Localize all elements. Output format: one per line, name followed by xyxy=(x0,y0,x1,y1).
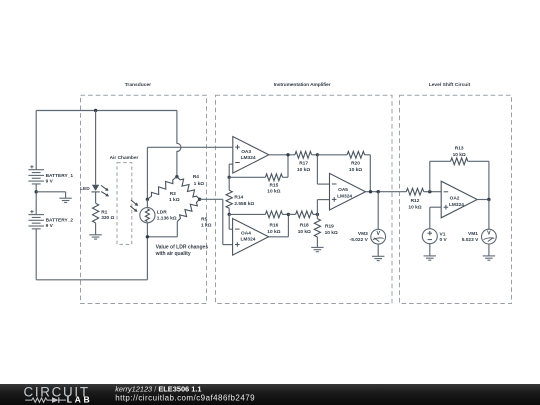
svg-text:10 kΩ: 10 kΩ xyxy=(297,167,310,173)
voltage source V1 xyxy=(422,229,447,244)
resistor R5 xyxy=(177,199,211,228)
svg-text:LDR: LDR xyxy=(157,210,167,216)
svg-text:Value of LDR changes: Value of LDR changes xyxy=(156,245,209,251)
svg-text:10 kΩ: 10 kΩ xyxy=(349,167,362,173)
svg-text:10 kΩ: 10 kΩ xyxy=(325,230,338,236)
CircuitLab logo wordmark CIRCUIT xyxy=(24,385,90,400)
wire top rail xyxy=(36,110,177,112)
ground VM3 xyxy=(372,256,384,260)
resistor R14 xyxy=(226,177,254,214)
svg-text:Level Shift Circuit: Level Shift Circuit xyxy=(429,82,471,88)
svg-text:R4: R4 xyxy=(193,174,199,180)
junction bridge left node xyxy=(146,198,149,201)
svg-text:5.023 V: 5.023 V xyxy=(462,237,479,243)
svg-text:10 kΩ: 10 kΩ xyxy=(408,205,421,211)
CircuitLab logo wordmark LAB xyxy=(67,394,92,404)
svg-text:1 kΩ: 1 kΩ xyxy=(169,197,180,203)
svg-text:10 kΩ: 10 kΩ xyxy=(453,152,466,158)
ground R19 xyxy=(311,247,323,251)
junction VM3 tap xyxy=(377,190,380,193)
svg-text:BATTERY_2: BATTERY_2 xyxy=(46,218,74,224)
wire OA2 output xyxy=(477,199,489,201)
svg-text:OA2: OA2 xyxy=(450,196,460,202)
wire R20 to output xyxy=(369,155,371,192)
junction R12 R13 node xyxy=(428,190,431,193)
svg-text:LED: LED xyxy=(80,186,90,192)
resistor R16 xyxy=(229,211,288,235)
svg-text:1.136 kΩ: 1.136 kΩ xyxy=(157,216,177,222)
svg-text:Instrumentation Amplifier: Instrumentation Amplifier xyxy=(274,82,331,88)
svg-text:LM324: LM324 xyxy=(337,194,352,200)
annotation label Instrumentation Amplifier xyxy=(274,82,331,88)
op-amp OA3 xyxy=(233,137,269,174)
svg-text:LM324: LM324 xyxy=(241,237,256,243)
ground battery midpoint xyxy=(59,198,71,202)
svg-text:R16: R16 xyxy=(269,222,278,228)
svg-text:VM3: VM3 xyxy=(358,231,368,237)
ground V1 xyxy=(424,256,436,260)
svg-text:LM324: LM324 xyxy=(241,155,256,161)
svg-text:OA3: OA3 xyxy=(241,149,251,155)
junction OA4 output node xyxy=(287,213,290,216)
wire OA4 inverting input xyxy=(229,214,232,229)
svg-text:LM324: LM324 xyxy=(449,202,464,208)
svg-text:330 Ω: 330 Ω xyxy=(101,215,114,221)
wire VM3 to ground xyxy=(377,244,379,256)
svg-text:kerry12123 / ELE3506 1.1: kerry12123 / ELE3506 1.1 xyxy=(115,384,201,393)
svg-text:10 kΩ: 10 kΩ xyxy=(267,229,280,235)
svg-text:9 V: 9 V xyxy=(46,178,54,184)
svg-text:Air Chamber: Air Chamber xyxy=(110,155,139,161)
wire R15 to OA3 output xyxy=(287,155,289,178)
svg-text:LAB: LAB xyxy=(67,394,92,404)
svg-text:-5.022 V: -5.022 V xyxy=(350,237,369,243)
svg-text:OA4: OA4 xyxy=(241,231,251,237)
resistor R3 xyxy=(147,177,179,203)
svg-text:1 kΩ: 1 kΩ xyxy=(201,222,212,228)
svg-text:10 kΩ: 10 kΩ xyxy=(267,188,280,194)
svg-text:VM1: VM1 xyxy=(468,231,478,237)
resistor R17 xyxy=(295,151,312,173)
junction OA5 output node xyxy=(369,190,372,193)
wire between batteries xyxy=(35,184,37,215)
svg-text:10 kΩ: 10 kΩ xyxy=(298,229,311,235)
resistor R15 xyxy=(229,174,288,195)
battery BATTERY_1 xyxy=(28,165,73,184)
wire battery top drop xyxy=(35,111,37,170)
resistor R13 xyxy=(430,146,489,200)
wire bridge right output xyxy=(200,199,233,244)
svg-text:2.558 kΩ: 2.558 kΩ xyxy=(234,201,254,207)
svg-text:R17: R17 xyxy=(299,161,308,167)
wire LED drop xyxy=(95,111,97,185)
voltmeter VM3 xyxy=(350,229,386,244)
junction LED branch tap xyxy=(94,109,97,112)
wire LED to R1 xyxy=(95,192,97,203)
op-amp OA2 xyxy=(441,181,477,218)
svg-text:R5: R5 xyxy=(201,216,207,222)
wire V1 to ground xyxy=(429,244,431,256)
annotation label Air Chamber xyxy=(110,155,139,161)
footer bar xyxy=(0,384,540,405)
resistor R1 xyxy=(93,203,115,223)
svg-text:R1: R1 xyxy=(101,209,107,215)
junction bridge bottom node xyxy=(146,235,149,238)
svg-text:V: V xyxy=(487,231,491,237)
wire R12 to OA2 xyxy=(429,191,442,193)
footer url line xyxy=(115,393,255,402)
op-amp OA5 xyxy=(330,173,366,210)
LED light arrows xyxy=(101,185,109,196)
resistor R19 xyxy=(314,214,338,247)
svg-text:R14: R14 xyxy=(234,194,243,200)
wire bottom rail xyxy=(36,279,147,281)
svg-text:BATTERY_1: BATTERY_1 xyxy=(46,173,74,179)
voltmeter VM1 xyxy=(462,229,497,244)
svg-text:R19: R19 xyxy=(325,224,334,230)
resistor R4 xyxy=(177,174,204,199)
svg-text:R15: R15 xyxy=(269,183,278,189)
svg-text:0 V: 0 V xyxy=(440,237,448,243)
wire to midpoint ground xyxy=(36,192,65,198)
junction OA3 output node xyxy=(286,153,289,156)
photoresistor LDR xyxy=(140,199,177,237)
wire VM1 drop xyxy=(488,200,490,230)
wire bridge left output xyxy=(147,147,232,199)
junction OA2 output node xyxy=(487,198,490,201)
svg-text:R18: R18 xyxy=(300,222,309,228)
wire OA3 output xyxy=(269,154,295,156)
svg-text:V: V xyxy=(376,231,380,237)
wire top rail drop with hop xyxy=(177,111,181,177)
svg-text:R3: R3 xyxy=(170,191,176,197)
junction R18 R19 node xyxy=(316,213,319,216)
ground R1 xyxy=(89,235,101,239)
junction bridge right node xyxy=(198,198,201,201)
wire R5 to bottom node xyxy=(147,222,177,237)
junction OA4 feedback node xyxy=(228,213,231,216)
annotation box Air Chamber xyxy=(117,163,132,245)
annotation box Level Shift Circuit xyxy=(400,95,512,303)
annotation box Transducer xyxy=(81,95,207,303)
annotation box Instrumentation Amplifier xyxy=(216,95,393,303)
svg-text:R12: R12 xyxy=(411,198,420,204)
wire node to OA5 non-inverting input xyxy=(317,200,329,215)
wire OA5 output xyxy=(366,191,407,193)
wire OA4 output xyxy=(269,214,289,236)
annotation label Transducer xyxy=(125,82,151,88)
svg-text:V1: V1 xyxy=(440,232,446,238)
annotation note LDR value xyxy=(155,245,209,258)
wire R17 to node xyxy=(312,154,318,156)
footer credit line xyxy=(115,384,201,393)
wire OA3 inverting input xyxy=(229,164,233,177)
wire bottom riser xyxy=(146,237,148,280)
annotation label Level Shift Circuit xyxy=(429,82,471,88)
svg-text:OA5: OA5 xyxy=(338,187,348,193)
ground VM1 xyxy=(483,256,495,260)
svg-text:R20: R20 xyxy=(351,161,360,167)
svg-text:with air quality: with air quality xyxy=(155,251,191,257)
svg-text:Transducer: Transducer xyxy=(125,82,151,88)
LDR light arrows xyxy=(130,200,138,212)
svg-text:http://circuitlab.com/c9af486f: http://circuitlab.com/c9af486fb2479 xyxy=(115,393,255,402)
LED LED xyxy=(80,185,100,193)
wire VM3 drop xyxy=(377,192,379,230)
svg-text:1 kΩ: 1 kΩ xyxy=(194,181,205,187)
svg-text:R13: R13 xyxy=(455,146,464,152)
op-amp OA4 xyxy=(233,219,269,256)
svg-text:9 V: 9 V xyxy=(46,223,54,229)
junction battery midpoint xyxy=(35,190,38,193)
resistor R20 xyxy=(317,151,370,173)
resistor R12 xyxy=(406,188,430,210)
wire VM1 to ground xyxy=(488,244,490,256)
junction OA3 feedback node xyxy=(228,176,231,179)
wire battery bottom xyxy=(35,229,37,280)
battery BATTERY_2 xyxy=(28,210,73,229)
wire node to OA5 inverting input xyxy=(317,155,329,184)
resistor R18 xyxy=(288,211,317,235)
wire R1 to ground xyxy=(95,223,97,235)
junction bridge top node xyxy=(175,175,178,178)
wire OA2 non-inverting input xyxy=(430,207,441,229)
CircuitLab logo resistor-diode glyph xyxy=(25,397,66,403)
junction R17 R20 node xyxy=(316,153,319,156)
